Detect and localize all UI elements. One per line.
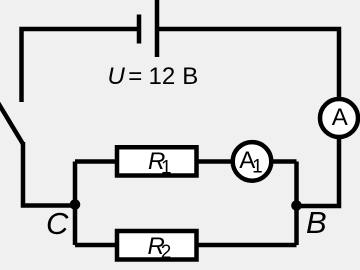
resistor R1 <box>117 147 197 175</box>
node B dot <box>291 200 302 211</box>
svg-text:C: C <box>46 206 69 241</box>
wire: left vertical + top-left horizontal to battery <box>22 29 140 102</box>
wire: A1 to right branch <box>271 159 297 164</box>
switch blade (open) <box>0 101 23 144</box>
battery long plate <box>155 0 160 57</box>
wire: C to R2 <box>75 243 118 248</box>
ammeter A <box>320 99 358 137</box>
svg-text:В: В <box>182 63 198 90</box>
wire: right branch vertical <box>294 162 299 246</box>
node C dot <box>70 199 81 210</box>
svg-text:A: A <box>332 104 348 131</box>
battery short plate <box>137 15 142 44</box>
svg-text:U: U <box>108 63 126 90</box>
svg-text:=: = <box>128 63 142 90</box>
wire: R2 to right branch <box>197 243 297 248</box>
svg-text:B: B <box>306 205 327 240</box>
wire: battery to top-right corner, down to ammeter A <box>157 29 339 99</box>
svg-text:2: 2 <box>161 242 172 263</box>
wire: node B to right, up to ammeter A <box>297 139 340 206</box>
svg-text:1: 1 <box>161 158 172 179</box>
wire: R1 to ammeter A1 <box>197 159 234 164</box>
wire: C to R1 <box>75 159 118 164</box>
svg-text:1: 1 <box>252 157 263 178</box>
wire: switch bottom vertical + horizontal to node C <box>23 142 75 206</box>
ammeter A1 <box>233 142 272 181</box>
resistor R2 <box>117 231 197 260</box>
wire: node C vertical branch <box>73 162 78 246</box>
svg-text:12: 12 <box>149 63 176 90</box>
